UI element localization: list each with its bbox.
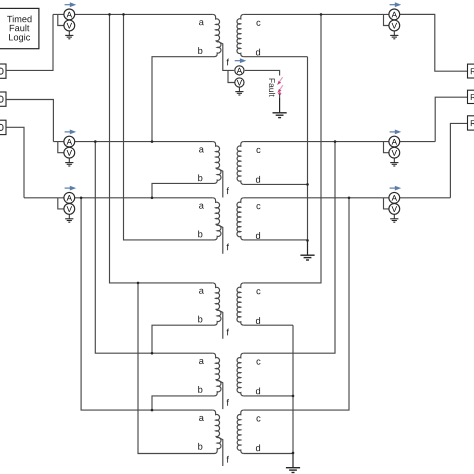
label T1 pin d: [256, 49, 260, 56]
current flow arrow above A7: [235, 58, 247, 63]
wire T1 fault tap f to meter A7: [217, 41, 234, 71]
ammeter A3: [64, 192, 75, 203]
wire T4 d to d-bus2: [244, 324, 293, 326]
transformer T4 secondary winding c-d: [237, 283, 244, 325]
label T5 pin d: [256, 387, 260, 394]
label T6 pin b: [198, 443, 202, 450]
voltmeter V6: [389, 204, 400, 215]
wire T3 tap f stub: [217, 224, 223, 253]
wire T6 tap f stub: [217, 437, 223, 466]
label T1 pin b: [198, 47, 202, 54]
transformer T3 secondary winding c-d: [237, 198, 244, 240]
wire T1 d to d-bus: [244, 56, 308, 58]
label T3 pin d: [256, 232, 260, 239]
ground under V2: [65, 158, 73, 166]
wire phase-2 rail y142 (A2 to T2 terminal a): [53, 141, 212, 143]
wire T3 c rail to source A6: [244, 197, 451, 199]
wire T5 b to T6 a node: [152, 396, 215, 410]
junction node J12: [151, 409, 154, 412]
wire T1 b to T2 a node: [152, 57, 215, 142]
signal connector box C2 (cut at left edge): [0, 92, 6, 106]
wire phase-1 rail y14 (A1 to T1 terminal a): [53, 13, 213, 15]
junction node J5: [151, 140, 154, 143]
transformer T1 primary winding a-b (tapped): [213, 14, 221, 56]
wire T2 d to d-bus: [244, 183, 308, 185]
wire d-bus2 (T4/T5/T6 d common): [292, 325, 294, 453]
label T1 pin c: [256, 21, 260, 26]
current flow arrow above A6: [390, 186, 402, 191]
wire T2 c rail to source A5: [244, 141, 436, 143]
label T3 pin c: [256, 204, 260, 209]
ground under V1: [65, 31, 73, 39]
wire C2 to source A2: [6, 100, 53, 142]
wire bracket A4-V4: [384, 14, 389, 25]
wire bracket A7-V7: [228, 70, 235, 82]
wire T5 tap f stub: [217, 380, 223, 409]
ammeter A6: [389, 192, 400, 203]
label T6 pin a: [199, 416, 204, 421]
wire phase-3 rail y198 (A3 to T3 terminal a): [24, 197, 213, 199]
junction node J9: [348, 197, 351, 200]
wire d-bus (T1/T2/T3 d common): [307, 57, 309, 241]
junction node J1: [108, 13, 111, 16]
junction node J3: [320, 13, 323, 16]
current flow arrow above A2: [65, 130, 77, 135]
label T4 pin c: [256, 289, 260, 294]
junction node J6: [334, 140, 337, 143]
transformer T5 primary winding a-b (tapped): [213, 353, 221, 396]
junction node J15: [292, 395, 295, 398]
ground under V7: [235, 87, 243, 95]
label T2 pin d: [256, 176, 260, 183]
voltmeter V2: [64, 147, 75, 158]
label T2 pin f: [227, 187, 229, 194]
ground under fault element: [273, 98, 287, 118]
label T3 pin a: [199, 204, 204, 209]
label T3 pin f: [227, 244, 229, 251]
junction node J14: [306, 239, 309, 242]
label T4 pin a: [199, 289, 204, 294]
transformer T2 secondary winding c-d: [237, 142, 244, 185]
ground under V4: [390, 31, 398, 39]
wire T4 tap f stub: [217, 309, 223, 338]
wire source A5 to load R2: [435, 97, 467, 141]
label T5 pin f: [227, 399, 229, 406]
wire C1 to source A1: [6, 14, 53, 70]
ammeter A2: [64, 136, 75, 147]
label T5 pin b: [198, 386, 202, 393]
ground under V6: [390, 214, 398, 222]
signal connector box C1 (cut at left edge): [0, 64, 6, 78]
label T5 pin c: [256, 360, 260, 365]
wire C3 to source A3: [6, 127, 24, 198]
wire c-bus phase-3 (T3 c to T6 c): [244, 198, 349, 410]
wire riser phase-2 to T5 a: [95, 142, 212, 354]
wire fault to ground: [279, 94, 281, 98]
wire bracket A5-V5: [384, 142, 389, 153]
wire T2 b to T3 a node: [152, 183, 215, 197]
current flow arrow above A5: [390, 130, 402, 135]
label T3 pin b: [198, 231, 202, 238]
ground d-bus2 lower bank: [286, 453, 300, 473]
wire riser phase-1 to T3 b: [124, 14, 215, 240]
junction node J2: [122, 13, 125, 16]
ammeter A5: [389, 136, 400, 147]
label T6 pin f: [227, 456, 229, 463]
control block: Timed Fault Logic: [0, 8, 39, 48]
signal connector box C3 (cut at left edge): [0, 120, 6, 134]
voltmeter V1: [64, 20, 75, 31]
current flow arrow above A3: [65, 186, 77, 191]
ammeter A7: [235, 66, 244, 75]
wire meter A7 to fault: [245, 70, 280, 75]
junction node J4: [94, 140, 97, 143]
transformer T3 primary winding a-b (tapped): [213, 198, 221, 240]
fault element zigzag symbol: [277, 77, 283, 95]
label T2 pin a: [199, 147, 204, 152]
wire bracket A6-V6: [384, 198, 389, 209]
label T1 pin f: [227, 59, 229, 66]
wire T2 tap f stub: [217, 168, 223, 197]
load resistor box R3 (cut at right edge): [468, 116, 474, 130]
wire bracket A1-V1: [58, 14, 64, 25]
wire riser phase-1 to T4 a: [110, 14, 213, 283]
junction node J8: [151, 197, 154, 200]
transformer T1 secondary winding c-d: [237, 14, 244, 56]
junction node J10: [137, 282, 140, 285]
label T6 pin c: [256, 416, 260, 421]
wire c-bus phase-1 (T1 c to T4 c): [244, 14, 321, 283]
transformer T6 primary winding a-b (tapped): [213, 410, 221, 453]
voltmeter V3: [64, 204, 75, 215]
voltmeter V7: [235, 78, 244, 87]
label T5 pin a: [199, 359, 204, 364]
wire source A6 to load R3: [450, 123, 467, 197]
transformer T2 primary winding a-b (tapped): [213, 142, 221, 184]
transformer T4 primary winding a-b (tapped): [213, 283, 221, 325]
wire c-bus phase-2 (T2 c to T5 c): [244, 142, 335, 354]
wire T5 d to d-bus2: [244, 395, 293, 397]
junction node J7: [80, 197, 83, 200]
label T4 pin d: [256, 317, 260, 324]
junction node J11: [151, 352, 154, 355]
transformer T5 secondary winding c-d: [237, 353, 244, 396]
junction node J13: [306, 183, 309, 186]
load resistor box R1 (cut at right edge): [468, 64, 474, 78]
ammeter A1: [64, 9, 75, 20]
ground d-bus upper bank: [300, 240, 314, 260]
ammeter A4: [389, 9, 400, 20]
label T4 pin f: [227, 329, 229, 336]
wire source A4 to load R1: [398, 14, 468, 71]
wire bracket A3-V3: [58, 198, 64, 209]
label T6 pin d: [256, 444, 260, 451]
label T1 pin a: [199, 20, 204, 25]
load resistor box R2 (cut at right edge): [468, 90, 474, 103]
voltmeter V5: [389, 147, 400, 158]
wire T4 b to T5 a node: [152, 325, 215, 353]
label Fault (rotated): [269, 79, 275, 97]
wire T6 d to d-bus2: [244, 453, 293, 455]
wire riser phase-3 to T6 a: [81, 198, 213, 410]
wire T1 c rail to source A4: [244, 13, 435, 15]
ground under V3: [65, 214, 73, 222]
wire T3 d to d-bus: [244, 239, 308, 241]
current flow arrow above A4: [390, 2, 402, 7]
current flow arrow above A1: [65, 2, 77, 7]
label T2 pin c: [256, 148, 260, 153]
label T4 pin b: [198, 316, 202, 323]
wire riser T6 b to phase-1 node: [138, 283, 215, 454]
transformer T6 secondary winding c-d: [237, 410, 244, 453]
junction node J16: [292, 452, 295, 455]
ground under V5: [390, 158, 398, 166]
voltmeter V4: [389, 20, 400, 31]
label T2 pin b: [198, 174, 202, 181]
wire bracket A2-V2: [58, 142, 64, 153]
